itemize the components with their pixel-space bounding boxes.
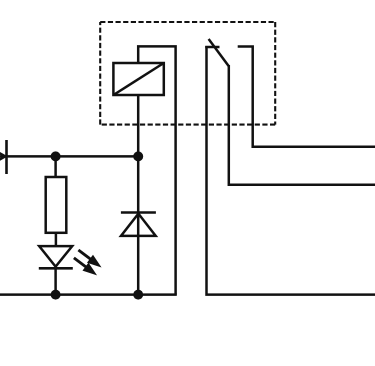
wire: top input rail (0, 155, 138, 158)
switch left terminal (common) with hinge tick (205, 46, 375, 295)
switch middle terminal wire (229, 65, 375, 185)
switch blade (209, 39, 229, 66)
flyback diode D3 (121, 213, 156, 236)
wire: dot to resistor (54, 156, 57, 178)
LED D2 (39, 246, 73, 268)
wire: coil return (up right side of coil) (138, 46, 175, 294)
resistor R1 (46, 177, 67, 233)
relay module dashed outline (100, 22, 275, 125)
node: junction dot bottom-left (51, 290, 61, 300)
wire: bottom rail (0, 293, 177, 296)
wire: LED to bottom rail (54, 268, 57, 294)
switch right contact terminal (238, 47, 375, 147)
wire: resistor to LED (55, 233, 58, 247)
node: junction dot top-middle (133, 151, 143, 161)
node: junction dot bottom-middle (133, 290, 143, 300)
LED light arrow 2 (71, 254, 100, 279)
wire: coil bottom terminal down to bottom rail (137, 95, 140, 295)
input diode D1 (clipped at left image edge) (0, 140, 7, 175)
relay coil K1 (113, 63, 163, 95)
LED light arrow 1 (75, 246, 104, 271)
node: junction dot top-left (51, 151, 61, 161)
